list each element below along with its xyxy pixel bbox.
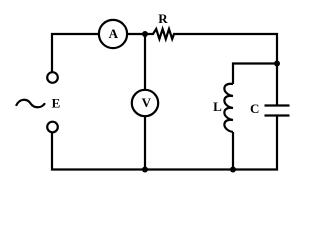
svg-text:R: R [158,11,168,26]
svg-text:A: A [109,26,119,41]
svg-text:L: L [213,99,222,114]
svg-text:V: V [142,95,152,110]
svg-text:E: E [52,95,61,110]
svg-text:C: C [250,101,259,116]
